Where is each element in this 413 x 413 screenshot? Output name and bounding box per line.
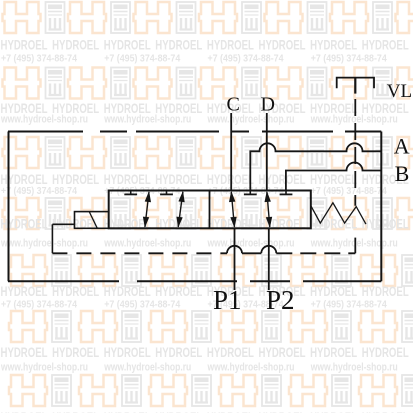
svg-text:www.hydroel-shop.ru: www.hydroel-shop.ru (103, 237, 191, 249)
svg-text:www.hydroel-shop.ru: www.hydroel-shop.ru (103, 113, 191, 125)
svg-text:www.hydroel-shop.ru: www.hydroel-shop.ru (310, 362, 398, 374)
port B line with bridge over VL line (286, 163, 381, 191)
VL pilot dashed vertical (354, 99, 356, 206)
blocked port T-mark at B (280, 191, 293, 195)
svg-text:www.hydroel-shop.ru: www.hydroel-shop.ru (207, 113, 295, 125)
enclosure border bottom edge (long dashes) (8, 280, 119, 282)
hydraulic schematic (8, 78, 412, 315)
svg-text:C: C (227, 93, 240, 115)
port P2 line (268, 228, 270, 290)
valve body outline (109, 191, 311, 229)
svg-text:HYDROEL: HYDROEL (1, 409, 48, 413)
svg-text:HYDROEL: HYDROEL (310, 37, 357, 53)
enclosure border left edge (8, 132, 10, 282)
port C line (230, 113, 232, 191)
svg-text:www.hydroel-shop.ru: www.hydroel-shop.ru (207, 237, 295, 249)
svg-text:+7 (495) 374-88-74: +7 (495) 374-88-74 (1, 53, 77, 65)
svg-text:HYDROEL: HYDROEL (362, 409, 409, 413)
blocked port T-mark left box 1 (124, 191, 137, 195)
svg-text:HYDROEL: HYDROEL (1, 344, 48, 360)
svg-text:HYDROEL: HYDROEL (155, 283, 202, 299)
enclosure border right edge (380, 132, 382, 282)
blocked port T-mark at A (244, 191, 257, 195)
svg-text:www.hydroel-shop.ru: www.hydroel-shop.ru (103, 362, 191, 374)
VL port symbol (337, 78, 374, 89)
flow arrow right box C-P1 (229, 191, 237, 228)
VL symbol center stub (354, 78, 356, 94)
svg-text:VL: VL (387, 81, 412, 102)
svg-text:+7 (495) 374-88-74: +7 (495) 374-88-74 (1, 185, 77, 197)
svg-text:P2: P2 (266, 285, 295, 315)
pilot line bridge over P2 (261, 246, 276, 254)
flow arrow left box 1 (143, 191, 151, 228)
svg-text:A: A (394, 134, 410, 159)
svg-text:+7 (495) 374-88-74: +7 (495) 374-88-74 (208, 53, 284, 65)
svg-text:HYDROEL: HYDROEL (1, 37, 48, 53)
svg-text:HYDROEL: HYDROEL (362, 37, 409, 53)
svg-text:www.hydroel-shop.ru: www.hydroel-shop.ru (0, 237, 88, 249)
svg-text:HYDROEL: HYDROEL (104, 409, 151, 413)
svg-text:HYDROEL: HYDROEL (155, 344, 202, 360)
svg-text:HYDROEL: HYDROEL (52, 409, 99, 413)
svg-text:HYDROEL: HYDROEL (259, 37, 306, 53)
port D line (266, 113, 268, 191)
svg-text:HYDROEL: HYDROEL (52, 37, 99, 53)
pilot line bridge over P1 (227, 246, 242, 254)
svg-text:HYDROEL: HYDROEL (155, 409, 202, 413)
port P1 line (234, 228, 236, 290)
valve position divider (209, 191, 211, 229)
svg-text:+7 (495) 374-88-74: +7 (495) 374-88-74 (311, 53, 387, 65)
svg-text:HYDROEL: HYDROEL (259, 409, 306, 413)
VL pilot dashed vertical lower segment (354, 238, 356, 254)
svg-text:HYDROEL: HYDROEL (104, 344, 151, 360)
flow arrow left box 2 (176, 191, 184, 228)
svg-text:+7 (495) 374-88-74: +7 (495) 374-88-74 (1, 299, 77, 311)
svg-text:HYDROEL: HYDROEL (207, 409, 254, 413)
svg-text:HYDROEL: HYDROEL (310, 283, 357, 299)
svg-text:+7 (495) 374-88-74: +7 (495) 374-88-74 (104, 53, 180, 65)
svg-text:P1: P1 (213, 285, 242, 315)
svg-text:HYDROEL: HYDROEL (104, 37, 151, 53)
svg-text:HYDROEL: HYDROEL (310, 344, 357, 360)
pilot drain dashed horizontal (52, 252, 227, 254)
svg-text:+7 (495) 374-88-74: +7 (495) 374-88-74 (104, 299, 180, 311)
svg-text:www.hydroel-shop.ru: www.hydroel-shop.ru (0, 362, 88, 374)
svg-text:HYDROEL: HYDROEL (310, 409, 357, 413)
svg-text:HYDROEL: HYDROEL (207, 344, 254, 360)
lever actuator box (75, 212, 109, 229)
svg-text:HYDROEL: HYDROEL (52, 283, 99, 299)
return spring (311, 203, 366, 224)
svg-text:www.hydroel-shop.ru: www.hydroel-shop.ru (310, 237, 398, 249)
lever diagonal (89, 212, 97, 229)
svg-text:D: D (261, 93, 275, 115)
svg-text:HYDROEL: HYDROEL (362, 216, 409, 232)
svg-text:HYDROEL: HYDROEL (207, 37, 254, 53)
svg-text:www.hydroel-shop.ru: www.hydroel-shop.ru (207, 362, 295, 374)
svg-text:www.hydroel-shop.ru: www.hydroel-shop.ru (310, 113, 398, 125)
flow arrow right box D-P2 (265, 191, 273, 228)
svg-text:HYDROEL: HYDROEL (362, 283, 409, 299)
svg-text:HYDROEL: HYDROEL (259, 344, 306, 360)
svg-text:HYDROEL: HYDROEL (104, 283, 151, 299)
svg-text:HYDROEL: HYDROEL (52, 344, 99, 360)
svg-text:+7 (495) 374-88-74: +7 (495) 374-88-74 (311, 299, 387, 311)
enclosure border top edge (long dashes) (8, 131, 83, 133)
svg-text:HYDROEL: HYDROEL (362, 344, 409, 360)
svg-text:B: B (395, 161, 410, 186)
lever linkage horizontal (52, 223, 74, 225)
port A line with bridges over D and VL lines (250, 143, 381, 190)
svg-text:+7 (495) 374-88-74: +7 (495) 374-88-74 (311, 185, 387, 197)
svg-text:www.hydroel-shop.ru: www.hydroel-shop.ru (0, 113, 88, 125)
svg-text:HYDROEL: HYDROEL (1, 283, 48, 299)
lever linkage vertical (51, 224, 53, 253)
blocked port T-mark left box 2 (160, 191, 173, 195)
svg-text:HYDROEL: HYDROEL (155, 37, 202, 53)
